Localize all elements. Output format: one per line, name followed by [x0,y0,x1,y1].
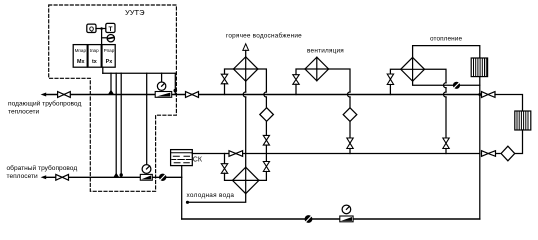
gauge supply flowmeter [157,82,165,90]
valve V11 HX4 inlet [387,74,393,85]
gauge circulation flowmeter [342,205,351,214]
valve V9 HX3 inlet [293,75,299,85]
svg-text:Рх: Рх [106,59,113,65]
valve V8 HX1 left [221,164,227,174]
filter F1 DHW [260,108,274,122]
svg-text:tпар: tпар [90,48,99,53]
node return tap dot [120,173,123,176]
wire impulse header under table [102,67,104,73]
wire impulse right leg [174,73,176,94]
wire gauge stub supply [161,73,163,82]
wire valve to HX1 right corner [259,172,267,181]
dashed boundary of heat metering unit UUTE [49,5,177,191]
svg-text:теплосети: теплосети [7,173,39,180]
valve V7 DHW return lower [263,162,269,172]
node supply tap triangle [108,90,114,94]
wire filter to valve [265,121,267,135]
valve V10 vent return [347,138,353,149]
svg-text:Q: Q [89,26,94,33]
svg-text:обратный трубопровод: обратный трубопровод [7,164,78,172]
svg-text:теплосети: теплосети [8,109,40,116]
node return tap triangle [114,173,120,177]
sensor table cell M [73,45,87,68]
tank SK storage [171,150,193,166]
gauge return flowmeter [142,165,151,174]
wire filter to bowtie [496,153,501,155]
valve V3 UUTE outlet bowtie [186,92,199,98]
wire supply main line y=94.5 [44,94,480,96]
svg-text:вентиляция: вентиляция [307,47,344,54]
flowmeter circulation line [340,216,353,222]
wire sensor tap to supply line [110,73,112,92]
hop crossing pump line [444,83,446,88]
heat exchanger HX1 DHW stage1 [233,167,259,193]
arrow supply line start [41,93,47,97]
svg-text:УУТЭ: УУТЭ [125,8,145,17]
valve V2 return inlet bowtie [56,174,69,180]
wire cold water inlet [187,194,246,203]
svg-text:холодная вода: холодная вода [187,192,235,199]
svg-text:tх: tх [92,59,97,65]
hop crossing supply line [264,92,267,97]
wire pressure tap to return gauge [146,73,148,164]
wire radiator R2 return [515,130,523,154]
heat exchanger HX4 heating [401,57,425,81]
wire radiator riser down [479,77,481,219]
wire DHW riser upper [245,50,247,56]
svg-text:Pпар: Pпар [104,48,115,53]
wire valve to header [265,145,267,161]
wire valve to supply [224,84,226,95]
gauge P near T [107,35,114,42]
svg-text:СК: СК [193,156,203,163]
wire HX2 right branch down [258,69,267,92]
wire bottom circulation line [182,218,480,220]
node cold water start dot [186,201,189,204]
valve V6 DHW return upper [263,135,269,145]
svg-text:горячее водоснабжение: горячее водоснабжение [226,32,302,40]
valve V14 heating return bowtie [482,151,496,157]
pump P3 circulation [305,215,313,223]
node QT junction [100,27,103,30]
filter F2 ventilation [343,108,357,122]
sensor table cell P [102,45,115,68]
svg-text:Мпар: Мпар [75,48,87,53]
wire supply to radiator R2 [495,95,523,112]
flowmeter return line [140,174,152,180]
filter F3 heating [501,146,515,161]
valve V12 heating return [443,138,449,149]
wire HX2 left branch [225,69,234,74]
heat exchanger HX2 DHW stage2 [234,57,258,81]
wire HX3 right branch down [329,69,350,92]
wire tank bottom riser [181,166,183,219]
wire return main line y=177.3 [44,176,182,178]
wire DHW return header y=153.5 [192,153,480,155]
wire sensor line to return 2 [120,73,122,177]
pump P2 heating circuit [453,82,460,89]
svg-text:подающий трубопровод: подающий трубопровод [8,100,81,108]
sensor table cell t [88,45,101,68]
wire HX4 bottom to pump line [413,81,480,85]
wire QT drop to table [101,29,103,45]
flowmeter supply line [155,92,172,98]
wire HX3 left branch [296,69,305,75]
heat exchanger HX3 ventilation [305,57,329,81]
node supply line junction [478,93,481,96]
wire DHW riser lower with hop over supply [245,81,247,92]
valve V13 heating supply bowtie [482,92,496,98]
arrow return line start [41,175,47,179]
hop crossing supply line [348,92,351,97]
node impulse junction dot [174,89,178,93]
pump P1 return line [159,174,166,181]
wire SK header branch to HX1 left [224,154,226,164]
radiator R1 heating [471,58,487,77]
wire heating top line to radiator [413,46,480,58]
sensor box T [106,23,115,32]
valve V5 HX2 inlet [221,74,227,84]
wire HX4 left branch [390,69,400,74]
wire QT link [96,28,106,30]
svg-text:Мх: Мх [77,59,85,65]
wire sensor line to return 1 [115,73,117,177]
svg-text:T: T [109,26,113,33]
valve V4 SK bowtie [229,151,243,157]
svg-text:отопление: отопление [430,36,462,43]
sensor box Q [87,24,96,32]
radiator R2 direct heating [515,111,531,130]
wire HX4 right branch down [425,69,447,83]
arrow DHW up [243,44,249,51]
valve V1 supply inlet bowtie [58,92,71,98]
hop crossing supply line [444,92,446,97]
